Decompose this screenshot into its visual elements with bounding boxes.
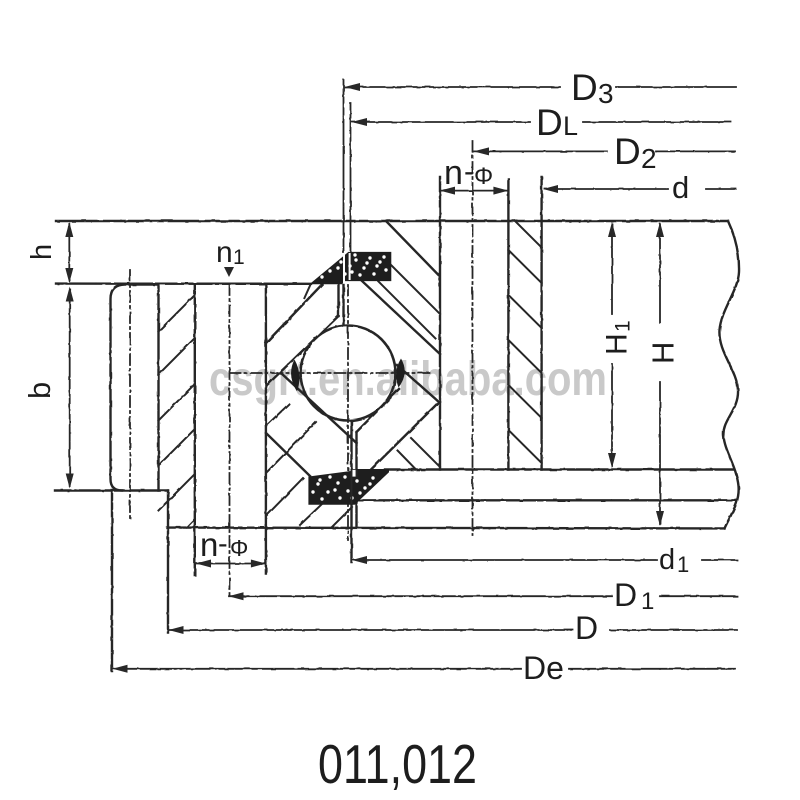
label DL	[536, 102, 578, 143]
gear tooth root edge	[157, 285, 159, 491]
svg-text:1: 1	[612, 320, 635, 332]
svg-text:H: H	[601, 333, 634, 355]
svg-text:n: n	[444, 154, 463, 192]
dimension n-phi top line	[440, 190, 508, 192]
arrow D2	[474, 147, 490, 155]
svg-text:011,012: 011,012	[318, 733, 477, 795]
arrow d1	[352, 556, 367, 564]
svg-text:1: 1	[233, 246, 245, 269]
ball horizontal centerline	[230, 372, 431, 374]
bolt hole right edge n1 with extension	[265, 285, 267, 574]
svg-text:H: H	[646, 342, 681, 364]
right raceway line A	[397, 365, 439, 402]
svg-text:csgrt.en.alibaba.com: csgrt.en.alibaba.com	[209, 353, 607, 406]
gear tooth bottom line with extension	[55, 489, 168, 491]
label H1 rotated	[601, 320, 635, 355]
dimension H line	[659, 224, 661, 524]
raceway chamfer L1	[266, 285, 322, 344]
dimension n-phi bottom line	[196, 563, 266, 565]
outer land edge below gear	[167, 491, 169, 528]
arrow DL	[352, 118, 368, 126]
svg-text:b: b	[22, 382, 57, 399]
raceway upper tangent L2	[267, 316, 339, 385]
dimension b line	[69, 289, 71, 486]
dimension d line	[545, 188, 736, 190]
svg-text:L: L	[563, 111, 578, 141]
bottom joint gap right line	[355, 432, 357, 528]
svg-text:3: 3	[598, 78, 614, 109]
DL extension line	[350, 103, 352, 253]
inner bore edge with d extension	[540, 177, 542, 470]
dimension DL line	[352, 121, 731, 123]
right contact crescent	[396, 359, 405, 388]
arrows H1	[608, 222, 616, 237]
arrows H	[656, 222, 664, 237]
svg-text:n: n	[200, 526, 218, 563]
arrow d	[543, 185, 558, 193]
dimension D1 line	[229, 595, 737, 597]
top joint gap left line	[337, 285, 339, 316]
dimension D line	[169, 629, 737, 631]
arrows b	[66, 287, 74, 302]
label D2	[614, 131, 657, 174]
bottom face line	[167, 526, 725, 529]
svg-text:D: D	[614, 577, 637, 613]
hatch strip E	[508, 221, 541, 463]
svg-text:D: D	[575, 610, 598, 646]
right bolt hole left edge with extension	[439, 177, 441, 470]
svg-text:-: -	[464, 155, 474, 188]
right ring chamfer R1	[386, 221, 439, 275]
hatch wedge G	[398, 438, 440, 470]
svg-text:1: 1	[641, 588, 654, 615]
label n-phi top	[444, 154, 493, 192]
dimension h line	[68, 224, 70, 281]
hatch region B	[266, 404, 352, 527]
gear pitch centerline	[129, 270, 131, 520]
arrow De	[113, 665, 128, 673]
hatch band right ring top	[378, 265, 440, 339]
arrow D1	[229, 592, 244, 600]
svg-text:-: -	[218, 528, 228, 560]
arrow D3	[345, 83, 361, 91]
left contact crescent	[291, 360, 299, 392]
top plate bottom line	[56, 282, 311, 285]
label D1	[614, 577, 654, 615]
svg-text:Φ: Φ	[230, 535, 248, 561]
right ring raceway tangent R2	[362, 281, 440, 354]
dimension D3 line	[345, 86, 736, 88]
support plate line	[359, 499, 736, 501]
raceway lower tangent L3	[281, 373, 357, 443]
svg-text:d: d	[672, 170, 689, 205]
svg-text:n: n	[216, 236, 233, 269]
svg-text:2: 2	[641, 143, 657, 174]
right ring bottom line	[385, 468, 733, 470]
De extension line	[111, 492, 113, 671]
svg-text:De: De	[523, 650, 564, 686]
label n-phi bottom	[200, 526, 248, 563]
left bolt centerline	[229, 284, 231, 598]
arrow D	[169, 626, 184, 634]
right bolt centerline	[472, 141, 474, 535]
dimension H1 line	[611, 224, 613, 466]
bottom seal	[309, 470, 389, 505]
ball	[301, 326, 396, 421]
hatch strip A	[159, 295, 195, 528]
svg-text:D: D	[571, 67, 598, 108]
svg-text:Φ: Φ	[474, 163, 493, 190]
top seal	[304, 252, 391, 299]
top joint gap right line	[342, 285, 344, 325]
label d1	[659, 544, 689, 577]
raceway chamfer L4	[266, 433, 310, 476]
svg-text:D: D	[614, 131, 641, 172]
arrowheads	[65, 83, 664, 673]
top face line	[56, 220, 728, 222]
D3 extension line	[343, 80, 345, 253]
bottom joint gap left line with d1 extension	[350, 421, 352, 563]
raceway right lower tangent	[357, 389, 400, 432]
right bolt hole right edge with extension	[507, 179, 509, 470]
wavy break edge	[719, 221, 739, 528]
arrows n-phi bottom	[196, 560, 211, 568]
arrow n1 pointer	[224, 267, 234, 277]
arrows n-phi top	[440, 187, 455, 195]
D extension line	[167, 528, 169, 633]
label D3	[571, 67, 614, 109]
svg-text:d: d	[659, 544, 675, 576]
right raceway line B	[371, 402, 439, 470]
dimension D2 line	[474, 150, 735, 152]
bolt hole left edge n1 with extension	[194, 285, 196, 575]
svg-text:h: h	[26, 244, 58, 260]
dimension De line	[113, 668, 735, 670]
ball vertical centerline	[347, 285, 349, 540]
label n1	[216, 236, 245, 269]
svg-text:1: 1	[677, 552, 689, 577]
arrows h	[65, 222, 73, 237]
gear tooth outline	[111, 285, 159, 491]
dimension d1 line	[353, 559, 738, 561]
svg-text:D: D	[536, 102, 563, 143]
